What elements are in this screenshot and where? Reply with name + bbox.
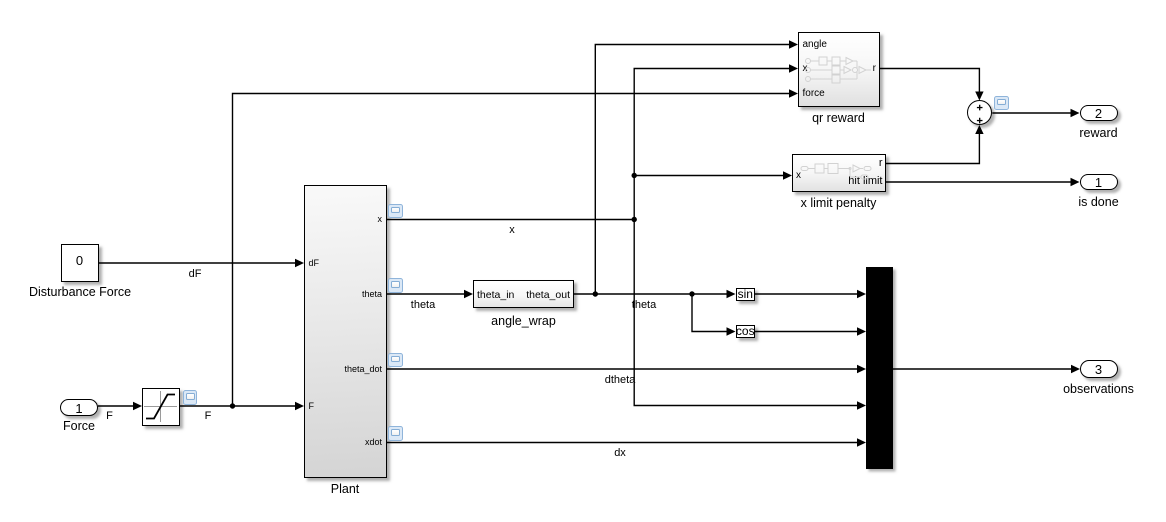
wire Plant x out [387,219,635,221]
wire x down to mux [634,220,858,406]
arrowhead into sum bottom [975,125,983,134]
subsystem x limit penalty [792,154,886,193]
flow label dF [165,269,225,280]
wire theta up to qr reward angle [595,45,790,295]
arrowhead into observations port [1071,365,1080,373]
trig block sin [736,288,756,301]
arrowhead into mux in4 [857,401,866,409]
badge on Plant x output [388,204,403,219]
badge on Plant theta_dot output [388,353,403,368]
badge on sum [994,96,1009,111]
wire dF constant to Plant [99,262,297,264]
flow label theta after angle_wrap [614,300,674,311]
wire qr reward r to sum [880,69,979,93]
mux block (observations) [866,267,893,469]
wire Plant theta_dot to mux [387,368,859,370]
inport Force [60,399,98,416]
subsystem Plant [304,185,387,478]
junction dot theta branch up [593,291,598,296]
arrowhead into qr reward force [789,89,798,97]
flow label F after Force [80,411,140,422]
outport 1 is done [1080,174,1118,190]
saturation block [142,388,180,426]
arrowhead into Plant dF [295,259,304,267]
wire cos to mux [755,331,858,333]
junction dot F branch [230,403,235,408]
badge on Plant theta output [388,278,403,293]
wire Plant theta to angle_wrap [387,293,466,295]
outport 2 reward [1080,105,1118,121]
arrowhead into mux in2 [857,327,866,335]
flow label x [482,225,542,236]
wire sin to mux [755,293,858,295]
constant Disturbance Force block [61,244,99,282]
wire saturation to Plant F [180,405,296,407]
arrowhead into x limit penalty [783,171,792,179]
wire F branch up to force line [233,94,791,407]
flow label dx [590,448,650,459]
arrowhead into mux in5 [857,438,866,446]
badge on saturation [183,390,198,405]
arrowhead into qr reward angle [789,40,798,48]
wire x up to qr reward [634,69,790,220]
arrowhead into sin [727,290,736,298]
arrowhead into mux in1 [857,290,866,298]
trig block cos [736,325,756,338]
subsystem qr reward [798,32,880,107]
arrowhead into Plant F [295,402,304,410]
sum plus sign top [977,107,983,108]
wire x limit penalty r to sum [886,133,979,164]
wire angle_wrap out to sin [574,293,728,295]
junction dot theta branch cos [689,291,694,296]
arrowhead into sum top [975,92,983,101]
arrowhead into reward port [1071,109,1080,117]
wire Force to saturation [98,405,134,407]
flow label dtheta [590,375,650,386]
wire theta branch to cos [692,294,728,332]
outport 3 observations [1080,360,1118,378]
wire Plant xdot to mux [387,442,859,444]
junction dot x limit tee [632,173,637,178]
wire mux to observations [893,368,1073,370]
wire hit limit to is done [886,181,1072,183]
arrowhead into saturation [133,402,142,410]
sum plus sign bottom [977,120,983,121]
flow label F after saturation [178,411,238,422]
arrowhead into qr reward x [789,64,798,72]
subsystem angle_wrap [473,280,574,308]
arrowhead into mux in3 [857,365,866,373]
junction dot x branch [632,217,637,222]
badge on Plant xdot output [388,426,403,441]
arrowhead into is done port [1071,178,1080,186]
arrowhead into angle_wrap [464,290,473,298]
flow label theta before angle_wrap [393,300,453,311]
wire sum to reward [992,112,1072,114]
arrowhead into cos [727,327,736,335]
wire x tee to x limit penalty [634,175,784,177]
sum block [967,100,993,126]
